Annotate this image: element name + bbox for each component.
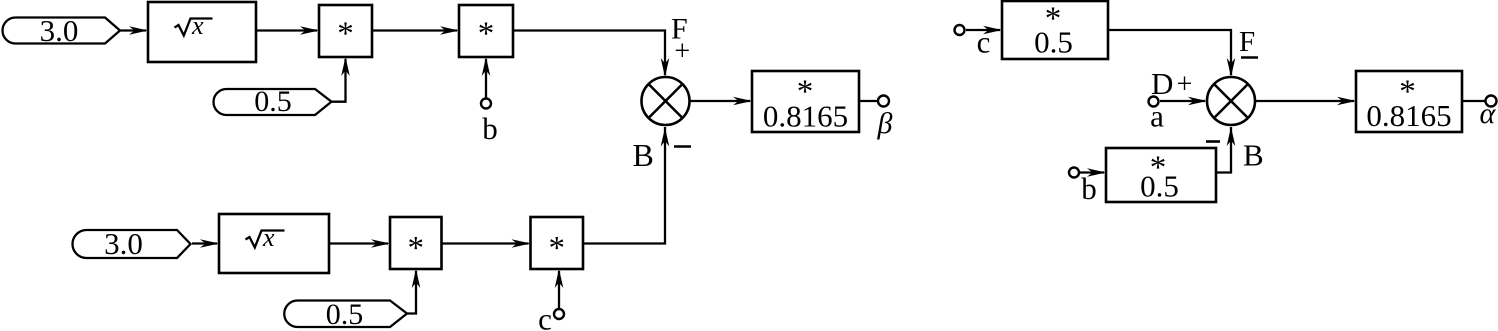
summer 1 (circle with X, left) <box>642 77 690 125</box>
terminal c (bottom left) <box>538 302 564 331</box>
svg-text:b: b <box>482 111 498 146</box>
minus sign (right summer bottom) <box>1206 140 1220 143</box>
wire sqrt to multiplier 1 (bottom) <box>329 239 390 248</box>
constant tag 0.5 (bottom) <box>284 298 407 331</box>
wire 0.5 tag up into multiplier 1 bottom (bottom row) <box>407 269 420 314</box>
svg-text:0.5: 0.5 <box>254 85 292 118</box>
wire gain block to terminal beta <box>859 100 877 102</box>
svg-text:0.5: 0.5 <box>1140 169 1179 204</box>
wire terminal c to block 0.5 (right top) <box>966 26 1002 35</box>
wire tag3.0 to sqrt block (top) <box>120 26 148 35</box>
multiplier block 1 (top, *) <box>319 5 372 57</box>
svg-text:β: β <box>877 107 893 140</box>
svg-text:0.5: 0.5 <box>1034 25 1073 60</box>
svg-text:3.0: 3.0 <box>104 226 143 261</box>
svg-text:*: * <box>337 16 354 52</box>
gain block *0.5 (right bottom) <box>1106 148 1216 204</box>
svg-text:c: c <box>538 302 552 331</box>
svg-text:0.8165: 0.8165 <box>763 99 848 134</box>
wire terminal a into summer 2 left <box>1160 97 1207 106</box>
wire summer 1 to gain block <box>690 97 753 106</box>
constant tag 0.5 (top) <box>214 85 332 118</box>
svg-text:B: B <box>633 137 654 173</box>
svg-text:*: * <box>478 16 495 52</box>
wire summer 2 to gain block 0.8165 (right) <box>1255 97 1356 106</box>
wire multiplier 1 to multiplier 2 (top) <box>372 26 459 35</box>
svg-text:0.8165: 0.8165 <box>1366 98 1451 133</box>
wire 0.5 tag up into multiplier 1 bottom <box>332 57 350 102</box>
wire sqrt to multiplier 1 (top) <box>256 26 319 35</box>
input tag 3.0 (top left) <box>3 13 121 48</box>
multiplier block 1 (bottom, *) <box>390 217 442 269</box>
wire terminal b up into multiplier 2 bottom <box>482 57 491 98</box>
svg-text:+: + <box>1177 69 1193 100</box>
svg-text:+: + <box>674 36 690 67</box>
gain block 0.8165 (right) <box>1356 71 1462 133</box>
terminal alpha <box>1480 96 1497 131</box>
terminal b (right) <box>1069 168 1097 207</box>
summer 2 (circle with X, right) <box>1207 77 1255 125</box>
terminal c (right) <box>955 25 991 60</box>
svg-text:a: a <box>1150 99 1164 134</box>
wire multiplier 1 to multiplier 2 (bottom) <box>442 239 531 248</box>
svg-text:F: F <box>1239 26 1255 58</box>
wire multiplier 2 (bottom) up into summer 1 bottom <box>583 127 669 244</box>
wire block 0.5 to summer 2 top <box>1108 30 1235 77</box>
wire gain block to terminal alpha <box>1462 100 1485 102</box>
svg-text:x: x <box>262 223 275 252</box>
svg-text:α: α <box>1480 97 1497 130</box>
svg-text:x: x <box>191 11 204 40</box>
minus sign (right summer top) <box>1241 56 1258 59</box>
wire tag3.0 to sqrt block (bottom) <box>192 239 219 248</box>
wire block 0.5 up into summer 2 bottom <box>1216 127 1235 173</box>
svg-text:3.0: 3.0 <box>40 13 79 48</box>
terminal b <box>481 99 498 147</box>
sqrt block (bottom) <box>219 214 329 273</box>
minus sign (left summer bottom) <box>674 145 691 148</box>
svg-text:*: * <box>548 231 565 267</box>
multiplier block 2 (top, *) <box>459 5 513 57</box>
wire multiplier 2 to summer top (down into +) <box>513 31 669 78</box>
multiplier block 2 (bottom, *) <box>531 217 584 269</box>
input tag 3.0 (bottom left) <box>73 226 191 261</box>
svg-text:B: B <box>1243 138 1264 173</box>
wire terminal c up into multiplier 2 bottom (bottom row) <box>555 269 564 309</box>
sqrt block U1 (top) <box>148 2 256 62</box>
gain block *0.5 (right top) <box>1002 1 1108 60</box>
wire terminal b to block 0.5 (right bottom) <box>1080 168 1106 177</box>
gain block 0.8165 (left) <box>752 71 859 134</box>
terminal a <box>1149 97 1165 134</box>
svg-text:*: * <box>407 231 424 267</box>
terminal beta <box>877 96 893 141</box>
svg-text:0.5: 0.5 <box>326 298 364 331</box>
